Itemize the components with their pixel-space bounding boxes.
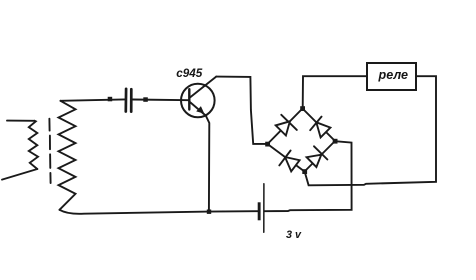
junction node dot bridge bottom corner	[302, 169, 307, 174]
junction node dot emitter-rail	[207, 210, 211, 214]
transformer T1 primary winding	[29, 121, 38, 169]
transistor Q1 base bar	[188, 89, 190, 109]
junction node dot after capacitor	[143, 97, 148, 102]
diode bridge edge wire L-T	[268, 109, 303, 145]
junction node dot bridge left corner	[265, 142, 270, 147]
transistor Q1 emitter line	[189, 102, 206, 116]
junction node dot on wire before capacitor	[108, 97, 113, 102]
battery BT1 negative thick plate	[258, 202, 261, 220]
wire bridge top corner to relay	[303, 76, 367, 108]
junction node dot bridge right corner	[333, 139, 338, 144]
transistor Q1 emitter arrowhead	[196, 106, 204, 114]
diode D2 triangle	[316, 122, 330, 137]
wire bridge bottom corner to relay right side	[305, 76, 436, 185]
wire collector to bridge left corner	[216, 77, 267, 144]
diode D1 cathode bar	[281, 115, 297, 130]
wire secondary top to capacitor	[61, 99, 125, 100]
svg-text:c945: c945	[176, 67, 203, 80]
wire bridge right corner to battery plus	[265, 141, 352, 211]
diode D3 triangle	[285, 157, 300, 171]
diode D1 triangle	[276, 121, 290, 135]
capacitor C1 right plate	[130, 89, 133, 111]
relay K1 box	[367, 63, 416, 90]
transformer T1 primary top lead wire	[7, 120, 35, 122]
diode bridge edge wire T-R	[303, 109, 336, 142]
diode bridge edge wire B-R	[305, 141, 336, 172]
diode bridge edge wire L-B	[268, 144, 305, 172]
transistor Q1 body circle	[181, 84, 215, 118]
transformer T1 secondary winding	[59, 101, 76, 210]
transistor Q1 collector line	[189, 77, 216, 98]
capacitor C1 left plate	[124, 89, 127, 112]
junction node dot bridge top corner	[300, 106, 305, 111]
wire secondary bottom to ground rail	[60, 210, 258, 214]
battery BT1 positive long plate	[263, 184, 265, 233]
diode D2 cathode bar	[310, 117, 321, 131]
svg-text:3 v: 3 v	[286, 229, 302, 241]
diode D4 triangle	[307, 155, 322, 167]
transformer core dashed line	[49, 119, 50, 183]
wire emitter down to ground rail	[206, 116, 210, 212]
transformer T1 primary bottom lead wire	[2, 169, 37, 180]
svg-text:реле: реле	[378, 68, 409, 82]
diode D4 cathode bar	[314, 146, 327, 159]
wire capacitor to transistor base	[133, 99, 189, 102]
diode D3 cathode bar	[279, 151, 290, 166]
